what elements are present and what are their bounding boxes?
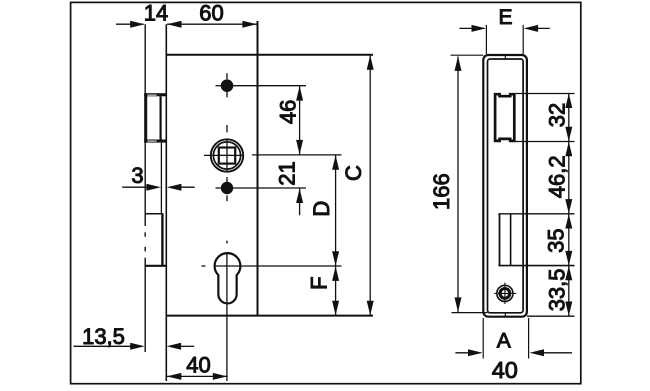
svg-text:E: E	[498, 6, 512, 29]
svg-text:32: 32	[544, 103, 569, 127]
svg-text:46,2: 46,2	[544, 155, 569, 198]
svg-text:166: 166	[429, 173, 454, 210]
svg-text:14: 14	[144, 1, 168, 26]
svg-text:F: F	[306, 276, 331, 289]
svg-text:33,5: 33,5	[544, 268, 569, 311]
svg-text:C: C	[341, 165, 366, 181]
svg-text:35: 35	[544, 228, 569, 252]
svg-text:60: 60	[199, 1, 223, 26]
svg-text:13,5: 13,5	[82, 324, 125, 349]
svg-text:3: 3	[131, 163, 143, 188]
svg-text:40: 40	[186, 353, 210, 378]
svg-text:A: A	[497, 330, 511, 353]
svg-text:21: 21	[275, 161, 300, 185]
svg-text:D: D	[309, 201, 334, 217]
svg-text:40: 40	[492, 357, 518, 383]
svg-text:46: 46	[275, 100, 300, 124]
